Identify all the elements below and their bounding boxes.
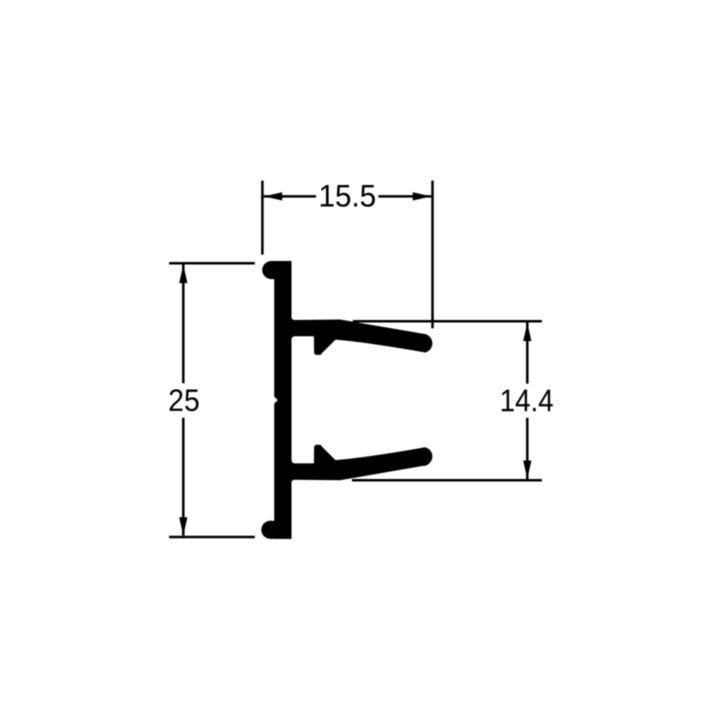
15.5 dimension line — [264, 195, 316, 198]
profile web (vertical bar) — [274, 261, 291, 539]
15.5 extension line right — [431, 181, 434, 329]
dimension text 15.5 — [321, 185, 375, 207]
symmetry notch on web left edge — [273, 396, 277, 404]
14.4 extension line bottom — [352, 479, 542, 482]
arrowhead 15.5 right — [413, 192, 432, 200]
25 dimension line — [182, 265, 185, 384]
15.5 extension line left — [261, 181, 264, 255]
arrowhead 15.5 left — [264, 192, 283, 200]
profile bottom-left lug — [270, 521, 291, 539]
profile top arm with barb — [289, 317, 433, 355]
25 extension line top — [169, 262, 255, 265]
14.4 extension line top — [353, 320, 542, 323]
arrowhead 14.4 bottom — [523, 461, 531, 480]
14.4 dimension line — [526, 323, 529, 384]
arrowhead 25 bottom — [179, 517, 187, 536]
profile bottom arm with barb — [289, 445, 433, 483]
dimension text 14.4 — [502, 390, 553, 412]
arrowhead 14.4 top — [523, 323, 531, 342]
25 extension line bottom — [169, 536, 255, 539]
dimension text 25 — [170, 389, 199, 411]
profile top-left lug — [271, 261, 291, 279]
arrowhead 25 top — [179, 265, 187, 284]
